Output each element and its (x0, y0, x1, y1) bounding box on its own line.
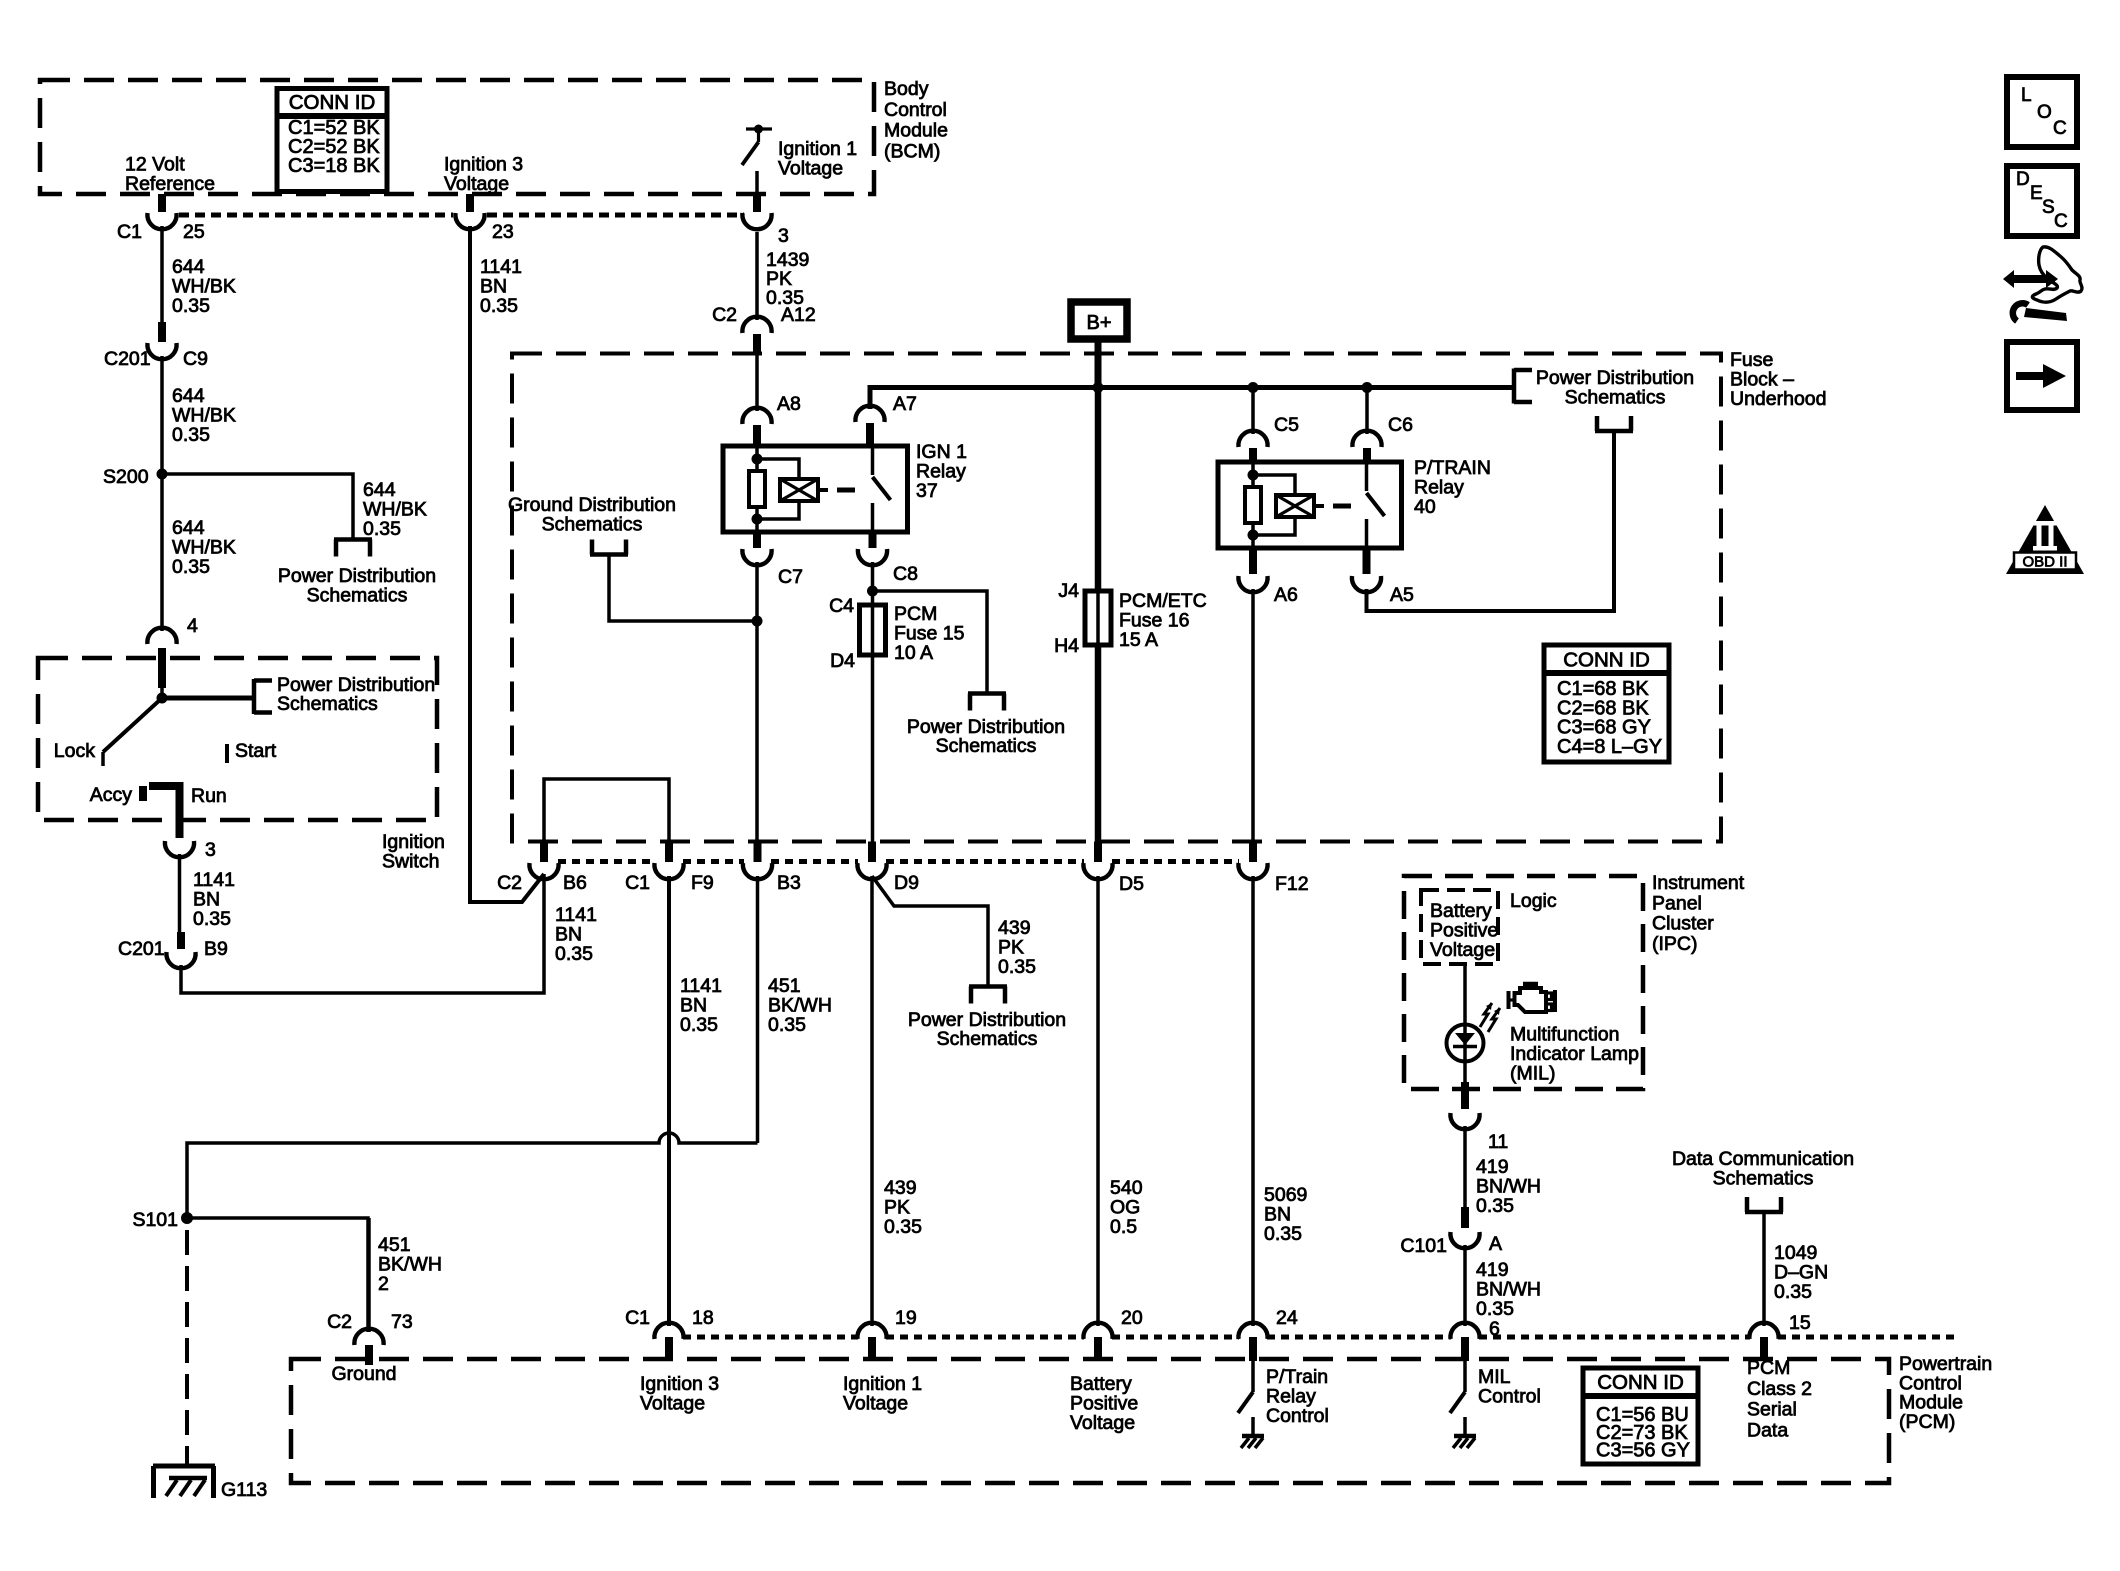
svg-text:0.35: 0.35 (172, 424, 210, 446)
svg-text:C4: C4 (829, 595, 854, 617)
svg-text:S200: S200 (103, 466, 149, 488)
svg-text:C1: C1 (625, 1307, 650, 1329)
svg-text:F9: F9 (691, 872, 714, 894)
svg-text:Start: Start (235, 740, 277, 762)
svg-text:CONN ID: CONN ID (289, 91, 376, 114)
svg-text:(MIL): (MIL) (1510, 1063, 1556, 1085)
svg-text:Voltage: Voltage (444, 173, 509, 195)
svg-text:C101: C101 (1400, 1235, 1447, 1257)
svg-text:S101: S101 (132, 1209, 178, 1231)
svg-text:0.35: 0.35 (193, 908, 231, 930)
svg-text:C2: C2 (327, 1311, 352, 1333)
svg-text:Underhood: Underhood (1730, 388, 1827, 410)
svg-text:Lock: Lock (54, 740, 95, 762)
svg-text:PCM: PCM (1747, 1357, 1790, 1379)
svg-text:A12: A12 (781, 304, 816, 326)
svg-text:D9: D9 (894, 872, 919, 894)
svg-text:11: 11 (1488, 1131, 1508, 1153)
svg-text:B3: B3 (777, 872, 801, 894)
svg-text:Instrument: Instrument (1652, 872, 1745, 894)
svg-text:CONN ID: CONN ID (1563, 649, 1650, 672)
svg-text:18: 18 (692, 1307, 714, 1329)
svg-text:H4: H4 (1054, 635, 1079, 657)
svg-text:OBD II: OBD II (2022, 554, 2067, 571)
svg-text:0.35: 0.35 (1476, 1298, 1514, 1320)
svg-text:0.35: 0.35 (172, 295, 210, 317)
svg-text:C7: C7 (778, 566, 803, 588)
svg-text:15 A: 15 A (1119, 629, 1158, 651)
svg-text:D5: D5 (1119, 873, 1144, 895)
svg-text:4: 4 (187, 615, 198, 637)
svg-text:(IPC): (IPC) (1652, 933, 1698, 955)
svg-text:C3=18 BK: C3=18 BK (288, 155, 380, 177)
svg-text:Control: Control (1266, 1405, 1329, 1427)
svg-text:(PCM): (PCM) (1899, 1411, 1955, 1433)
svg-text:Voltage: Voltage (1430, 939, 1495, 961)
svg-text:D: D (2016, 169, 2030, 190)
svg-text:Control: Control (884, 99, 947, 121)
svg-text:Panel: Panel (1652, 892, 1702, 914)
svg-text:C9: C9 (183, 348, 208, 370)
svg-text:Accy: Accy (90, 784, 133, 806)
svg-text:0.35: 0.35 (884, 1216, 922, 1238)
svg-text:C2: C2 (712, 304, 737, 326)
svg-text:C3=56 GY: C3=56 GY (1596, 1440, 1690, 1462)
svg-text:F12: F12 (1275, 873, 1309, 895)
svg-text:0.5: 0.5 (1110, 1216, 1137, 1238)
svg-text:0.35: 0.35 (363, 518, 401, 540)
svg-text:C8: C8 (893, 563, 918, 585)
svg-text:Run: Run (191, 785, 227, 807)
svg-text:C201: C201 (104, 348, 151, 370)
svg-text:D4: D4 (830, 650, 855, 672)
svg-text:Ground: Ground (331, 1363, 396, 1385)
svg-text:40: 40 (1414, 496, 1436, 518)
svg-text:0.35: 0.35 (1264, 1223, 1302, 1245)
svg-text:C201: C201 (118, 938, 165, 960)
svg-text:Voltage: Voltage (843, 1393, 908, 1415)
svg-text:G113: G113 (221, 1479, 267, 1501)
svg-text:Body: Body (884, 78, 929, 100)
svg-text:Cluster: Cluster (1652, 913, 1714, 935)
svg-text:Voltage: Voltage (1070, 1412, 1135, 1434)
svg-text:CONN ID: CONN ID (1597, 1371, 1684, 1394)
svg-text:Voltage: Voltage (778, 158, 843, 180)
svg-text:A7: A7 (893, 393, 917, 415)
svg-text:C6: C6 (1388, 414, 1413, 436)
svg-text:0.35: 0.35 (680, 1014, 718, 1036)
svg-text:Serial: Serial (1747, 1399, 1797, 1421)
svg-text:Schematics: Schematics (936, 735, 1037, 757)
svg-text:C: C (2053, 118, 2067, 139)
svg-text:Data: Data (1747, 1419, 1788, 1441)
svg-text:10 A: 10 A (894, 642, 933, 664)
svg-text:25: 25 (183, 221, 205, 243)
svg-text:C1: C1 (117, 221, 142, 243)
svg-text:Voltage: Voltage (640, 1393, 705, 1415)
svg-text:0.35: 0.35 (998, 956, 1036, 978)
svg-text:Control: Control (1478, 1386, 1541, 1408)
svg-text:C2: C2 (497, 872, 522, 894)
svg-text:Class 2: Class 2 (1747, 1378, 1812, 1400)
svg-text:19: 19 (895, 1307, 917, 1329)
svg-text:Schematics: Schematics (277, 693, 378, 715)
svg-text:20: 20 (1121, 1307, 1143, 1329)
svg-text:6: 6 (1489, 1318, 1500, 1340)
svg-text:A5: A5 (1390, 584, 1414, 606)
svg-text:Schematics: Schematics (307, 585, 408, 607)
svg-text:0.35: 0.35 (1774, 1281, 1812, 1303)
svg-text:Module: Module (884, 120, 948, 142)
svg-text:0.35: 0.35 (768, 1014, 806, 1036)
svg-text:3: 3 (778, 225, 789, 247)
svg-text:B+: B+ (1086, 312, 1111, 334)
svg-text:Schematics: Schematics (1565, 387, 1666, 409)
svg-text:J4: J4 (1058, 580, 1079, 602)
svg-text:0.35: 0.35 (172, 556, 210, 578)
svg-text:(BCM): (BCM) (884, 140, 940, 162)
svg-text:0.35: 0.35 (1476, 1195, 1514, 1217)
svg-text:A8: A8 (777, 393, 801, 415)
svg-text:73: 73 (391, 1311, 413, 1333)
svg-text:Reference: Reference (125, 173, 215, 195)
svg-text:15: 15 (1789, 1312, 1811, 1334)
svg-text:O: O (2037, 102, 2052, 123)
svg-text:0.35: 0.35 (555, 943, 593, 965)
svg-text:B6: B6 (563, 872, 587, 894)
svg-text:Schematics: Schematics (542, 514, 643, 536)
svg-text:E: E (2030, 183, 2043, 204)
svg-text:C1: C1 (625, 872, 650, 894)
svg-text:A: A (1489, 1233, 1502, 1255)
svg-text:C4=8 L–GY: C4=8 L–GY (1557, 736, 1662, 758)
svg-text:S: S (2042, 197, 2055, 218)
svg-text:C5: C5 (1274, 414, 1299, 436)
svg-text:L: L (2021, 85, 2032, 106)
svg-text:B9: B9 (204, 938, 228, 960)
svg-text:C: C (2054, 211, 2068, 232)
svg-text:Logic: Logic (1510, 890, 1557, 912)
svg-text:24: 24 (1276, 1307, 1298, 1329)
svg-text:3: 3 (205, 839, 216, 861)
svg-text:2: 2 (378, 1273, 389, 1295)
svg-text:Schematics: Schematics (1713, 1168, 1814, 1190)
svg-text:23: 23 (492, 221, 514, 243)
svg-text:0.35: 0.35 (480, 295, 518, 317)
svg-text:A6: A6 (1274, 584, 1298, 606)
svg-text:Switch: Switch (382, 851, 439, 873)
svg-text:Schematics: Schematics (937, 1028, 1038, 1050)
svg-text:37: 37 (916, 480, 938, 502)
